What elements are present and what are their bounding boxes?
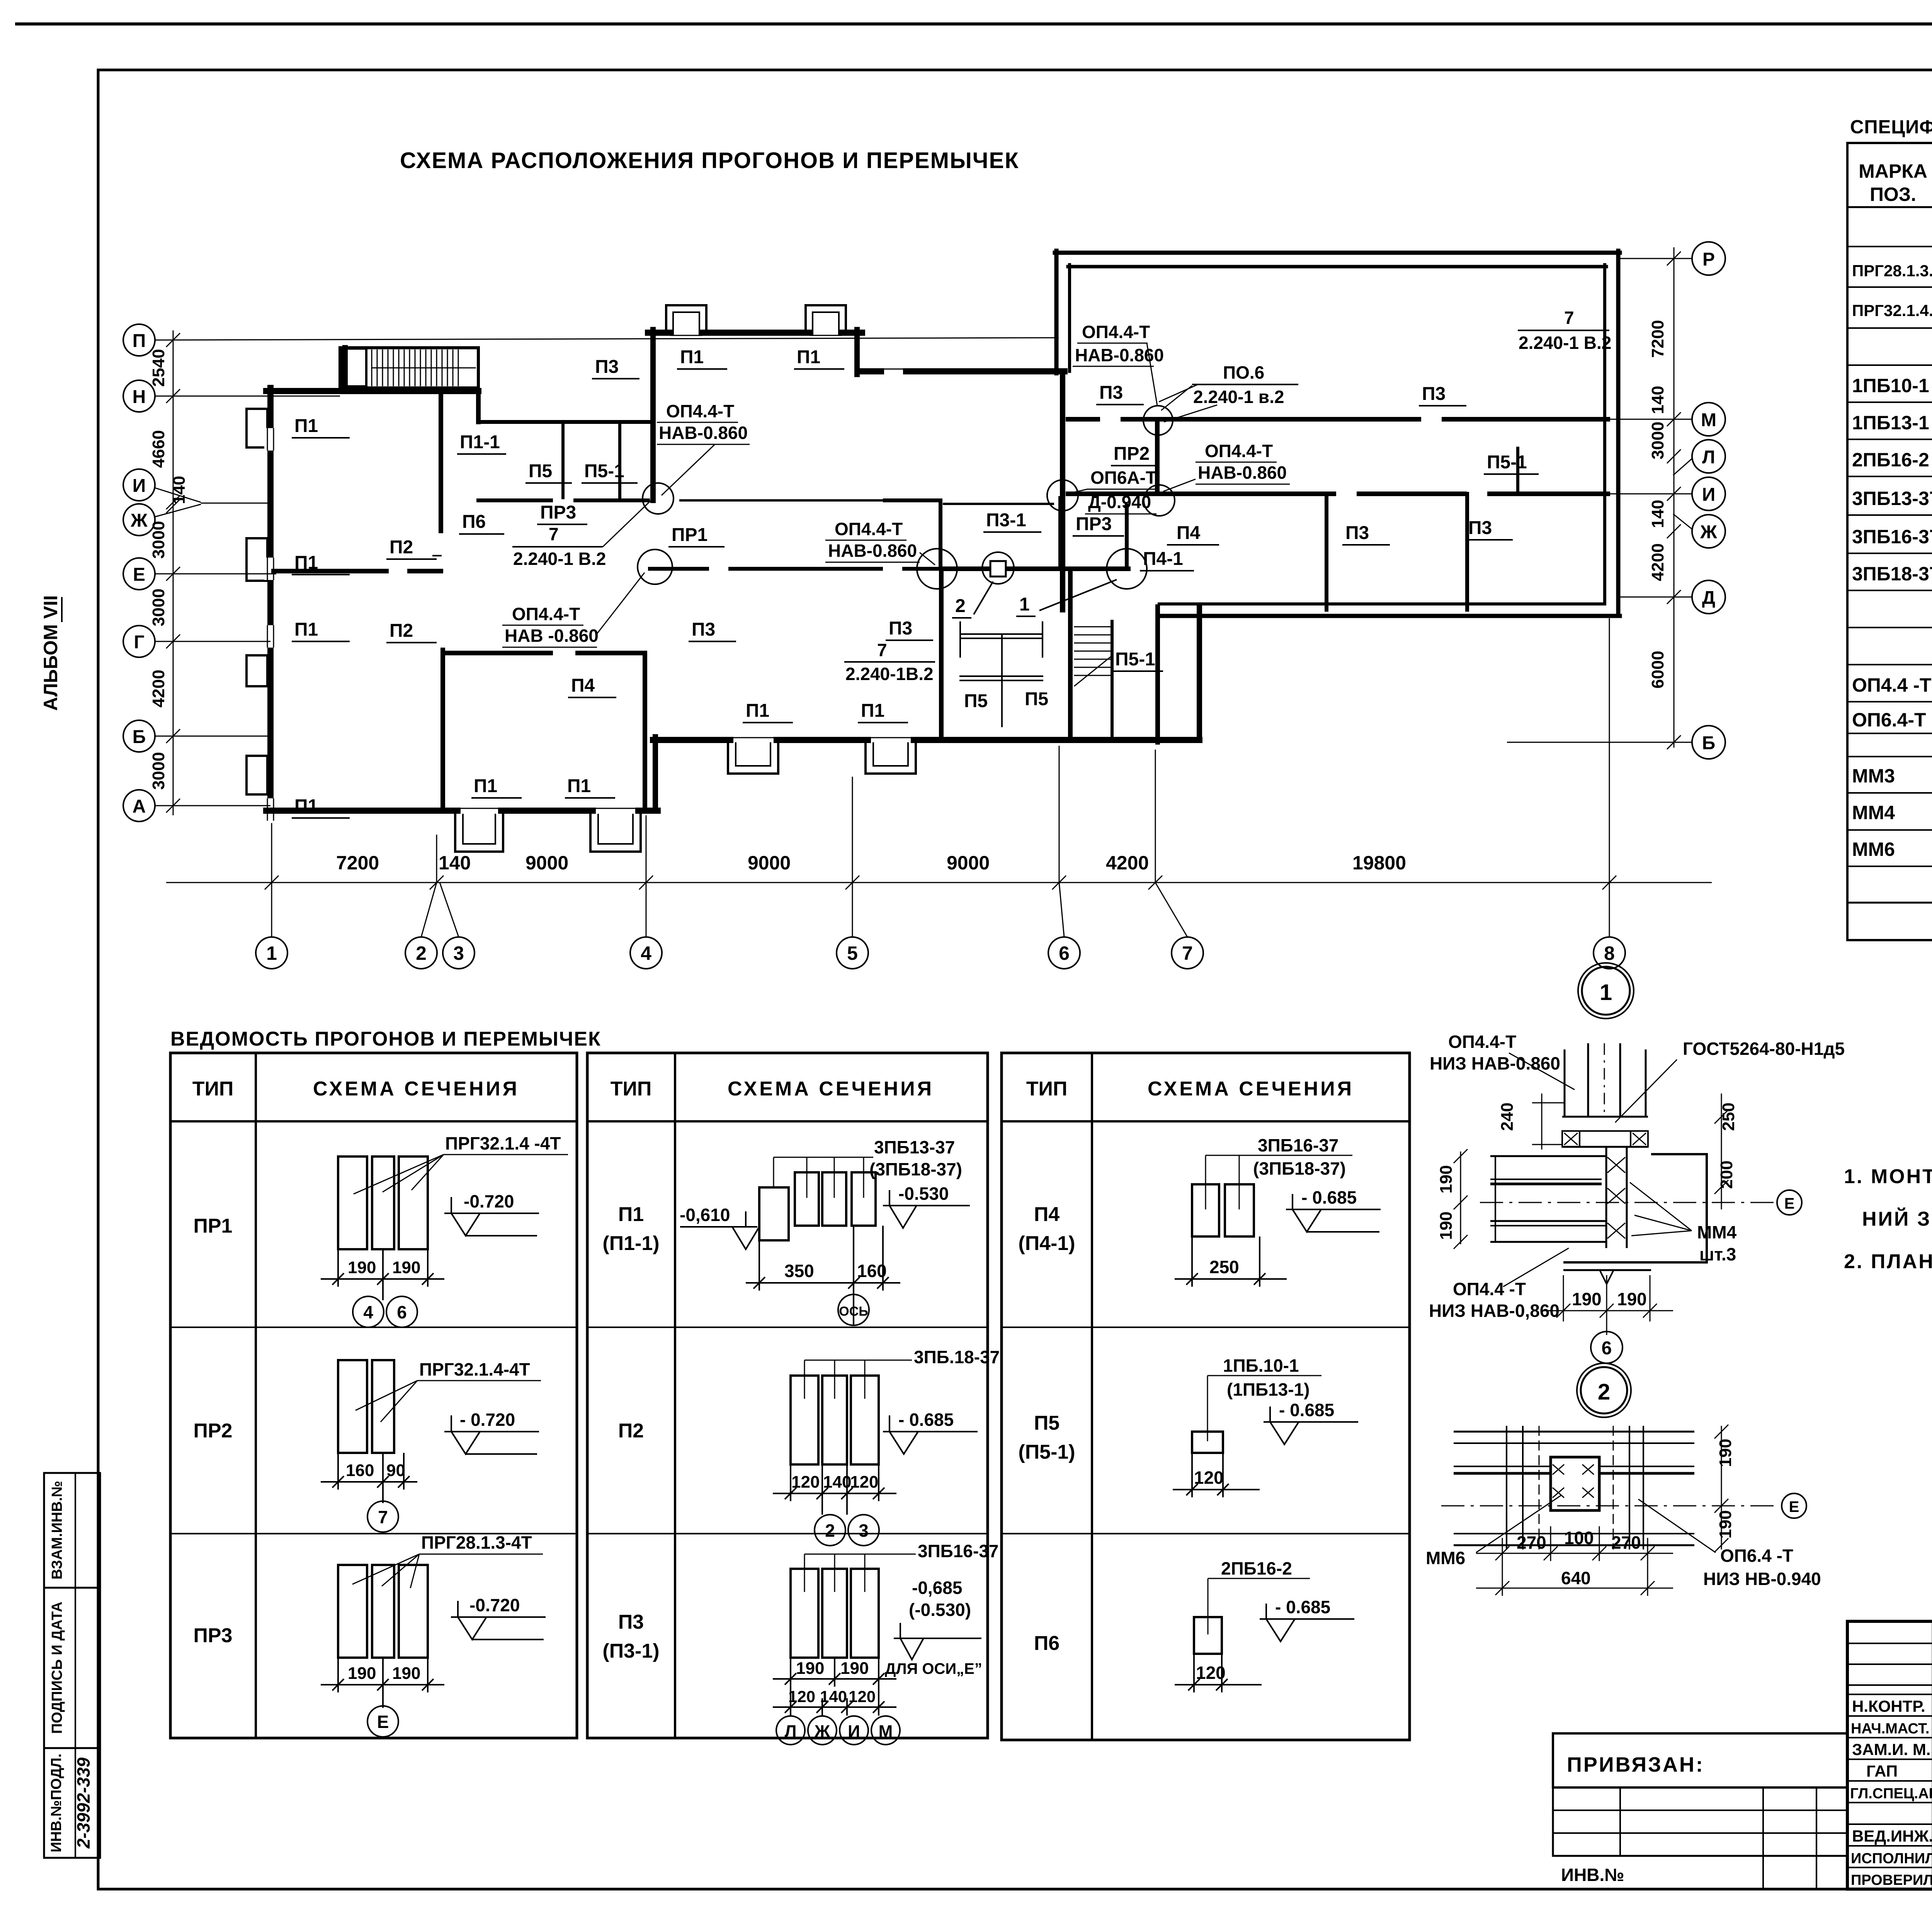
svg-text:(П5-1): (П5-1) [1018, 1441, 1075, 1463]
svg-text:П3-1: П3-1 [986, 510, 1026, 531]
svg-text:2.240-1В.2: 2.240-1В.2 [845, 664, 934, 684]
svg-text:2-3992-339: 2-3992-339 [73, 1757, 94, 1849]
svg-text:Е: Е [133, 565, 145, 585]
svg-text:6: 6 [397, 1302, 407, 1322]
interior wall П4 horizontal [443, 651, 551, 655]
svg-text:ВЕДОМОСТЬ ПРОГОНОВ И ПЕРЕМЫЧЕ: ВЕДОМОСТЬ ПРОГОНОВ И ПЕРЕМЫЧЕК [170, 1028, 601, 1050]
axis Н line [155, 396, 340, 397]
svg-text:(-0.530): (-0.530) [909, 1600, 971, 1620]
svg-text:СПЕЦИФИКАЦИЯ ИЗДЕЛИЙ К СХЕМЕ: СПЕЦИФИКАЦИЯ ИЗДЕЛИЙ К СХЕМЕ РАСПОЛОЖЕНИ… [1850, 116, 1932, 138]
axis circle Е [123, 558, 155, 590]
left wall pilaster 4 [247, 756, 267, 794]
right block right wall inner [1603, 265, 1606, 604]
svg-text:Е: Е [377, 1712, 389, 1732]
svg-text:ТИП: ТИП [611, 1078, 652, 1100]
axis stems to circles [271, 823, 272, 937]
svg-text:1: 1 [1600, 980, 1612, 1005]
svg-text:6: 6 [1602, 1338, 1612, 1359]
T1r2 axis circle 7 [367, 1501, 398, 1532]
sidebar divider [75, 1473, 76, 1858]
d2 verticals [1506, 1426, 1507, 1549]
svg-text:120: 120 [1194, 1468, 1224, 1488]
svg-text:140: 140 [820, 1687, 847, 1706]
axis И-right leader [1608, 493, 1692, 495]
svg-text:190: 190 [392, 1664, 420, 1683]
svg-text:ПРГ32.1.4-4Т: ПРГ32.1.4-4Т [419, 1359, 530, 1379]
porch left 2 [590, 815, 641, 852]
svg-text:190: 190 [1437, 1165, 1456, 1193]
svg-text:ПР3: ПР3 [1076, 514, 1112, 534]
svg-text:2: 2 [825, 1520, 835, 1541]
interior wall vertical right [643, 653, 647, 808]
svg-text:И: И [848, 1722, 860, 1741]
svg-text:4660: 4660 [149, 430, 168, 468]
lower stair wall [1111, 621, 1114, 737]
svg-text:140: 140 [170, 476, 189, 504]
svg-text:П1: П1 [680, 347, 704, 367]
svg-text:АЛЬБОМ VII: АЛЬБОМ VII [40, 595, 61, 711]
svg-text:3ПБ16-37: 3ПБ16-37 [1258, 1135, 1338, 1155]
svg-text:1: 1 [266, 942, 277, 964]
axis А line [155, 805, 270, 806]
svg-text:П1: П1 [474, 776, 497, 796]
T2r1 axis circle ось [838, 1294, 869, 1325]
svg-text:ОП6.4-Т: ОП6.4-Т [1852, 709, 1926, 731]
svg-text:Р: Р [1702, 249, 1715, 270]
svg-text:ГАП: ГАП [1866, 1762, 1898, 1780]
axis circle И [123, 469, 155, 501]
sidebar box ВЗАМ.ИНВ.№ [44, 1473, 100, 1588]
svg-text:(П4-1): (П4-1) [1018, 1232, 1075, 1255]
svg-text:ММ4: ММ4 [1852, 802, 1895, 823]
svg-text:П5-1: П5-1 [1115, 649, 1155, 670]
svg-text:1: 1 [1019, 594, 1030, 615]
axis И leader [154, 488, 201, 502]
svg-text:(П3-1): (П3-1) [602, 1640, 659, 1662]
svg-text:П4: П4 [571, 675, 595, 696]
left wall door gaps [264, 428, 277, 821]
svg-text:Б: Б [1702, 733, 1716, 753]
svg-text:7: 7 [1564, 308, 1574, 328]
svg-text:П5: П5 [1034, 1412, 1060, 1434]
svg-text:Ж: Ж [130, 510, 148, 531]
svg-text:ДЛЯ ОСИ„Е”: ДЛЯ ОСИ„Е” [885, 1660, 982, 1677]
svg-text:СХЕМА СЕЧЕНИЯ: СХЕМА СЕЧЕНИЯ [1148, 1078, 1354, 1100]
svg-text:120: 120 [850, 1473, 878, 1492]
interior wall vertical (top room) [439, 394, 443, 531]
T2 row2 schema П2 [791, 1376, 879, 1464]
svg-text:Л: Л [1702, 447, 1715, 468]
svg-text:НИЗ НВ-0.940: НИЗ НВ-0.940 [1703, 1569, 1821, 1589]
svg-text:120: 120 [788, 1687, 815, 1706]
svg-text:ИНВ.№: ИНВ.№ [1561, 1865, 1624, 1885]
left vertical dim line [173, 330, 174, 815]
right block top wall outer [1055, 251, 1620, 255]
svg-text:П5: П5 [529, 461, 552, 481]
svg-text:ОП4.4 -Т: ОП4.4 -Т [1852, 674, 1931, 696]
svg-text:(П1-1): (П1-1) [602, 1232, 659, 1255]
svg-text:И: И [133, 476, 146, 496]
svg-text:ПР3: ПР3 [194, 1624, 233, 1647]
svg-text:-0,610: -0,610 [680, 1205, 730, 1225]
svg-text:П2: П2 [389, 537, 413, 558]
svg-text:П3: П3 [1468, 518, 1492, 538]
corridor upper wall [478, 498, 551, 502]
svg-text:4200: 4200 [149, 670, 168, 707]
axis Д line [1617, 597, 1692, 598]
d1 leader lines [1509, 1053, 1575, 1090]
porch below 1 [728, 743, 778, 774]
beam ПР1 [680, 499, 885, 502]
right block М wall [1068, 417, 1098, 422]
svg-text:ВЕД.ИНЖ.: ВЕД.ИНЖ. [1852, 1827, 1932, 1845]
beam vertical x2434 [939, 500, 942, 569]
svg-text:ПРГ28.1.3-4Т: ПРГ28.1.3-4Т [421, 1532, 532, 1553]
svg-text:П3: П3 [889, 618, 912, 639]
tick marks left dims [166, 333, 180, 347]
svg-text:2: 2 [416, 942, 427, 964]
beam ПР3 [944, 566, 1128, 571]
d1 upper plate band [1562, 1116, 1648, 1118]
svg-text:П4: П4 [1034, 1203, 1060, 1226]
upper middle block left wall [650, 330, 656, 500]
svg-text:4200: 4200 [1106, 852, 1149, 874]
svg-text:4: 4 [363, 1302, 373, 1322]
svg-text:160: 160 [857, 1261, 887, 1281]
step wall to right block [862, 368, 881, 374]
joint plate detail2 [990, 561, 1006, 577]
porch above 2 [806, 305, 846, 330]
right block partition 1 [1325, 494, 1328, 610]
stair right wall [1155, 607, 1160, 742]
right block left wall upper inner [1068, 265, 1071, 371]
svg-text:СХЕМА РАСПОЛОЖЕНИЯ ПРОГОНО: СХЕМА РАСПОЛОЖЕНИЯ ПРОГОНОВ И ПЕРЕМЫЧЕК [400, 148, 1019, 173]
svg-text:ОП4.4-Т: ОП4.4-Т [666, 401, 734, 421]
T3 row3 schema П6 [1194, 1617, 1222, 1654]
svg-text:П1: П1 [618, 1203, 644, 1226]
svg-text:2: 2 [1598, 1379, 1610, 1405]
svg-text:2.240-1 В.2: 2.240-1 В.2 [513, 549, 606, 569]
svg-text:270: 270 [1611, 1532, 1641, 1553]
left block bottom wall [266, 808, 457, 814]
bottom axis circles [256, 937, 1625, 969]
sidebar box ПОДПИСЬ И ДАТА [44, 1588, 100, 1748]
d2 leaders [1476, 1495, 1561, 1553]
axis circle Б right [1692, 726, 1725, 759]
svg-text:9000: 9000 [748, 852, 791, 874]
svg-text:ГЛ.СПЕЦ.АР.: ГЛ.СПЕЦ.АР. [1850, 1786, 1932, 1802]
page outer border top [17, 22, 1932, 26]
svg-text:ПР2: ПР2 [194, 1420, 233, 1442]
svg-text:1ПБ13-1: 1ПБ13-1 [1852, 412, 1929, 434]
upper middle block top wall [648, 330, 671, 336]
bottom dim texts [336, 852, 1406, 874]
svg-text:МАРКА: МАРКА [1859, 160, 1927, 182]
porch above 1 [666, 305, 706, 330]
d1 bottom dim 190 190 [1542, 1310, 1673, 1311]
svg-text:ММ3: ММ3 [1852, 765, 1895, 787]
T1r1 axis circles 4 6 [353, 1296, 417, 1327]
right vertical dim line [1673, 247, 1675, 748]
axis Е line [155, 573, 276, 575]
interior wall П2 horizontal [274, 569, 386, 573]
svg-text:Л: Л [785, 1722, 797, 1741]
svg-text:3ПБ13-37: 3ПБ13-37 [1852, 488, 1932, 509]
svg-text:7: 7 [877, 640, 887, 660]
T1 row1 schema ПР1: three beams [338, 1156, 428, 1249]
svg-text:8: 8 [1604, 942, 1615, 964]
svg-text:П2: П2 [389, 621, 413, 641]
callout B ОП4.4-Т НАВ-0.860 [505, 604, 599, 646]
svg-text:250: 250 [1719, 1102, 1738, 1131]
svg-text:ПО.6: ПО.6 [1223, 362, 1264, 383]
axis Ж leader [154, 504, 201, 517]
middle bottom right wall [1197, 607, 1202, 740]
d2 dims [1476, 1553, 1673, 1554]
svg-text:2ПБ16-2: 2ПБ16-2 [1852, 449, 1929, 471]
svg-text:3ПБ.18-37: 3ПБ.18-37 [914, 1347, 1000, 1367]
axis Б line [155, 736, 270, 737]
svg-text:19800: 19800 [1352, 852, 1406, 874]
svg-text:П6: П6 [462, 512, 486, 532]
middle bottom wall [653, 737, 730, 743]
right block bottom wall outer [1158, 614, 1620, 618]
svg-text:СХЕМА СЕЧЕНИЯ: СХЕМА СЕЧЕНИЯ [728, 1078, 934, 1100]
T2r2 dim 120 140 120 [773, 1464, 896, 1515]
callout H ОП6А-Т Д-0.940 [1088, 468, 1156, 512]
axis М line [1608, 419, 1692, 420]
T3 row2 schema П5 [1192, 1432, 1223, 1453]
svg-text:190: 190 [1617, 1289, 1647, 1309]
sidebar box ИНВ.№ПОДЛ [44, 1748, 100, 1858]
П5 room left wall [939, 569, 944, 737]
T1r1 dim 190 190 [321, 1249, 444, 1300]
svg-text:3000: 3000 [149, 521, 168, 559]
svg-text:ОСЬ: ОСЬ [839, 1304, 868, 1319]
привязан table [1553, 1787, 1847, 1856]
svg-text:НАВ-0.860: НАВ-0.860 [828, 541, 917, 561]
name rows [1847, 1694, 1932, 1695]
svg-text:4: 4 [641, 942, 651, 964]
svg-text:190: 190 [348, 1664, 376, 1683]
svg-text:ПР2: ПР2 [1114, 444, 1150, 464]
svg-text:190: 190 [1716, 1439, 1735, 1467]
svg-text:2ПБ16-2: 2ПБ16-2 [1221, 1558, 1292, 1578]
svg-text:(3ПБ18-37): (3ПБ18-37) [869, 1159, 962, 1179]
callout G ОП4.4-Т НАВ-0.860 [1198, 441, 1287, 483]
T1r2 dim 160 90 [321, 1453, 417, 1503]
svg-text:НИЙ ЗАЩИТИТЬ СЛОЕМ ЦЕМЕНТНО: НИЙ ЗАЩИТИТЬ СЛОЕМ ЦЕМЕНТНОГО РАСТВОРА М… [1862, 1207, 1932, 1230]
svg-text:100: 100 [1564, 1528, 1594, 1548]
T2r2 axis circles 2 3 [815, 1515, 879, 1546]
svg-text:ММ6: ММ6 [1852, 838, 1895, 860]
partition П5-1 [1516, 448, 1519, 494]
left block left wall [267, 388, 274, 814]
left thin rows [1847, 1643, 1932, 1644]
svg-text:ПРГ32.1.4 -4Т: ПРГ32.1.4 -4Т [445, 1133, 561, 1153]
axis circle Б [123, 720, 155, 752]
svg-text:9000: 9000 [947, 852, 990, 874]
d1 bottom plate [1563, 1269, 1651, 1271]
axis circle Ж [123, 504, 155, 536]
svg-text:ОП6А-Т: ОП6А-Т [1090, 468, 1156, 488]
svg-text:120: 120 [849, 1687, 876, 1706]
svg-text:НАВ-0.860: НАВ-0.860 [1198, 463, 1287, 483]
svg-text:Ж: Ж [1700, 522, 1717, 543]
axis circle П [123, 324, 155, 356]
girder x2751 [1058, 498, 1063, 569]
T1r3 axis circle Е [367, 1706, 398, 1737]
axis Г line [155, 641, 270, 642]
ПР2 girder [1155, 419, 1160, 494]
T2r1 dim 350 160 [746, 1226, 900, 1325]
svg-text:Д: Д [1702, 588, 1715, 608]
left wall pilaster 2 [247, 538, 267, 581]
stair enclosure top-left [340, 348, 478, 388]
left dim texts [149, 349, 189, 790]
svg-text:3ПБ16-37: 3ПБ16-37 [918, 1541, 998, 1561]
svg-text:ПРИВЯЗАН:: ПРИВЯЗАН: [1567, 1753, 1704, 1776]
svg-text:А: А [133, 796, 146, 817]
svg-text:90: 90 [386, 1461, 405, 1480]
svg-text:П5-1: П5-1 [584, 461, 624, 481]
svg-text:-0.720: -0.720 [464, 1191, 514, 1211]
axis circle Ж right [1692, 515, 1725, 548]
partition x1604 [618, 422, 621, 498]
svg-text:П1: П1 [294, 416, 318, 436]
label underlines [292, 369, 1539, 818]
bottom dimension line [166, 618, 1712, 937]
svg-text:7200: 7200 [1648, 320, 1667, 358]
svg-text:ЗАМ.И. М.: ЗАМ.И. М. [1852, 1740, 1930, 1759]
svg-text:1. МОНТАЖНЫЕ МЕТАЛЛИЧЕСКИЕ: 1. МОНТАЖНЫЕ МЕТАЛЛИЧЕСКИЕ ДЕТАЛИ ПОСЛЕ … [1844, 1165, 1932, 1188]
vedomost table 2 grid [587, 1053, 988, 1738]
svg-text:М: М [1701, 410, 1716, 430]
svg-text:200: 200 [1717, 1160, 1736, 1189]
svg-text:П1-1: П1-1 [460, 432, 500, 452]
svg-text:-0.720: -0.720 [469, 1595, 520, 1615]
svg-text:М: М [879, 1722, 893, 1741]
svg-text:НИЗ НАВ-0,860: НИЗ НАВ-0,860 [1429, 1301, 1560, 1321]
axis circle М [1692, 403, 1725, 436]
axis circle Р [1692, 242, 1725, 275]
title block frame [1847, 1621, 1932, 1889]
right block И wall [1068, 492, 1334, 496]
svg-text:1ПБ.10-1: 1ПБ.10-1 [1223, 1355, 1299, 1376]
svg-text:190: 190 [796, 1659, 824, 1678]
svg-text:5: 5 [847, 942, 858, 964]
junction circles [643, 483, 673, 514]
svg-text:ТИП: ТИП [192, 1078, 234, 1100]
svg-text:-0.530: -0.530 [898, 1184, 949, 1204]
svg-text:П: П [133, 331, 146, 351]
d1 left beams [1490, 1155, 1606, 1157]
d1 right step wall [1563, 1154, 1707, 1262]
svg-text:3000: 3000 [149, 752, 168, 790]
svg-text:П4: П4 [1177, 523, 1201, 543]
svg-text:3ПБ13-37: 3ПБ13-37 [874, 1137, 955, 1157]
svg-text:ГОСТ5264-80-Н1д5: ГОСТ5264-80-Н1д5 [1683, 1039, 1845, 1059]
spec table grid [1847, 143, 1932, 940]
svg-text:120: 120 [791, 1473, 820, 1492]
П5 tables [960, 633, 1043, 635]
svg-text:2: 2 [955, 596, 966, 616]
svg-text:190: 190 [1437, 1211, 1456, 1240]
d1 axis circle Е [1777, 1190, 1802, 1215]
left wall pilaster 1 [247, 409, 267, 447]
T1 row2 schema ПР2: two beams [338, 1360, 394, 1453]
svg-text:140: 140 [823, 1473, 851, 1492]
left block top-right corner wall [476, 391, 481, 422]
svg-text:ПР1: ПР1 [672, 525, 707, 545]
svg-text:ПР1: ПР1 [194, 1215, 233, 1237]
vedomost table 1 grid [170, 1053, 577, 1738]
svg-text:ОП4.4 -Т: ОП4.4 -Т [1453, 1279, 1526, 1299]
stair hatch [371, 350, 372, 386]
svg-text:П1: П1 [294, 553, 318, 573]
axis circle Д [1692, 580, 1725, 614]
upper middle block right wall [854, 330, 860, 374]
svg-text:Н.КОНТР.: Н.КОНТР. [1852, 1697, 1925, 1715]
detail 2 callout circle [1581, 1367, 1627, 1413]
svg-text:7: 7 [549, 524, 559, 544]
right block partition 2 [1465, 494, 1469, 610]
svg-text:шт.3: шт.3 [1699, 1244, 1736, 1264]
svg-text:ТИП: ТИП [1026, 1078, 1068, 1100]
svg-text:2540: 2540 [149, 349, 168, 387]
svg-text:190: 190 [1716, 1510, 1735, 1538]
svg-text:И: И [1702, 485, 1716, 505]
d1 upper wall verticals [1564, 1049, 1566, 1117]
svg-text:250: 250 [1209, 1257, 1239, 1277]
svg-text:140: 140 [1648, 386, 1667, 414]
plan door labels [294, 347, 1527, 816]
corridor lower wall [650, 567, 707, 571]
right dim texts [1648, 320, 1667, 689]
T1 row3 schema ПР3: three beams [338, 1565, 428, 1658]
axis Р line [1617, 258, 1692, 259]
svg-text:П5-1: П5-1 [1487, 452, 1527, 473]
porch below 2 [866, 743, 916, 774]
svg-text:П1: П1 [797, 347, 820, 367]
svg-text:120: 120 [1196, 1663, 1226, 1683]
svg-text:190: 190 [392, 1258, 420, 1277]
svg-text:140: 140 [1648, 500, 1667, 528]
svg-text:Н: Н [133, 387, 146, 407]
axis circle Г [123, 626, 155, 657]
svg-text:П1: П1 [567, 776, 591, 796]
svg-text:3000: 3000 [149, 588, 168, 626]
svg-text:ОП4.4-Т: ОП4.4-Т [1205, 441, 1273, 461]
d1 labels [1429, 1032, 1845, 1321]
svg-text:ПОДПИСЬ И ДАТА: ПОДПИСЬ И ДАТА [49, 1602, 65, 1734]
svg-text:ПРГ32.1.4.4Т: ПРГ32.1.4.4Т [1852, 301, 1932, 320]
svg-text:2.240-1 В.2: 2.240-1 В.2 [1519, 333, 1611, 353]
right dim ticks [1667, 252, 1681, 265]
svg-text:ОП6.4 -Т: ОП6.4 -Т [1720, 1546, 1793, 1566]
svg-text:П1: П1 [294, 619, 318, 640]
stair enclosure inner thick wall [342, 348, 348, 388]
left wall pilaster 3 [247, 655, 267, 686]
svg-text:П3: П3 [595, 357, 619, 377]
svg-text:П4-1: П4-1 [1143, 549, 1183, 569]
svg-text:- 0.685: - 0.685 [1275, 1597, 1330, 1617]
porch left 1 [455, 815, 503, 852]
svg-text:(3ПБ18-37): (3ПБ18-37) [1253, 1158, 1346, 1179]
axis Л leader [1673, 458, 1693, 475]
svg-text:П2: П2 [618, 1420, 644, 1442]
T3 row1 schema П4 [1192, 1184, 1254, 1236]
